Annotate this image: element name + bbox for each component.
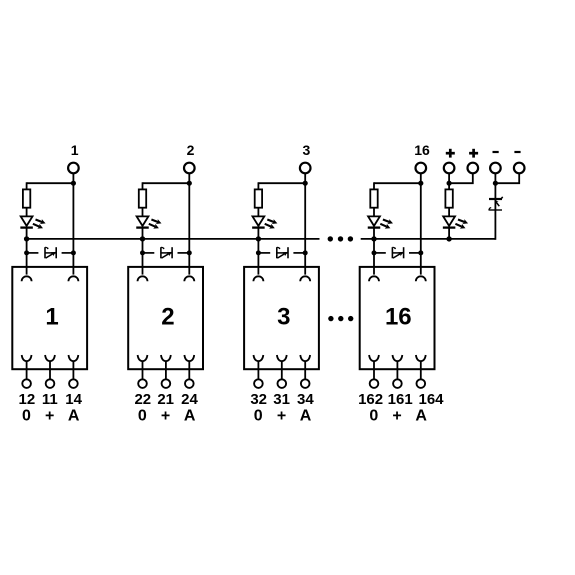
svg-text:A: A: [68, 408, 80, 425]
label + first: [446, 149, 455, 158]
resistor module 16: [370, 189, 377, 207]
terminal 2 circle: [184, 163, 195, 174]
wire module 3 left branch upper: [257, 182, 259, 189]
suppressor diode minus branch: [488, 197, 502, 211]
terminal - second circle: [514, 163, 525, 174]
resistor module 3: [255, 189, 262, 207]
wire module 2 bottom pin mid: [165, 361, 167, 380]
node + link junction: [447, 181, 452, 186]
wire link module 1: [27, 182, 74, 184]
resistor module 2: [139, 189, 146, 207]
LED module 1 arrows: [33, 219, 46, 229]
svg-text:0: 0: [254, 408, 263, 425]
node module 16 row2 left: [372, 250, 377, 255]
label - first: [493, 151, 499, 153]
node + bus junction: [446, 236, 451, 241]
svg-text:11: 11: [42, 391, 58, 408]
node module 16 bus junction: [371, 236, 376, 241]
svg-text:3: 3: [303, 142, 311, 158]
wire module 3 bottom pin right: [304, 361, 306, 380]
wire module 2 LED to box: [142, 228, 144, 275]
wire module 16 resistor to LED: [373, 208, 375, 217]
node module 1 row2 left: [24, 250, 29, 255]
terminal circle bottom right module 3: [301, 379, 310, 388]
wire module 3 bottom pin mid: [281, 361, 283, 380]
wire module 16 left branch upper: [373, 182, 375, 189]
terminal circle bottom right module 16: [417, 379, 426, 388]
svg-text:31: 31: [273, 391, 290, 408]
wire module 16 row2 left lead: [374, 252, 386, 254]
module 16 bottom contact mid: [393, 355, 403, 361]
wire module 16 bottom pin left: [373, 361, 375, 380]
node module 3 bus junction: [256, 236, 261, 241]
terminal + first circle: [444, 163, 455, 174]
wire link module 16: [374, 182, 421, 184]
wire - second link: [495, 173, 519, 183]
terminal - first circle: [490, 163, 501, 174]
node - link junction: [493, 181, 498, 186]
svg-text:21: 21: [157, 391, 174, 408]
module 16 top contact left: [369, 276, 379, 281]
wire module 1 bottom pin right: [72, 361, 74, 380]
relay module 2 box: [128, 267, 203, 369]
wire link module 3: [258, 182, 305, 184]
wire module 16 LED to box: [373, 228, 375, 275]
svg-text:+: +: [45, 408, 54, 425]
terminal circle bottom left module 2: [138, 379, 147, 388]
wire link module 2: [143, 182, 190, 184]
node module 16 row2 right: [418, 250, 423, 255]
svg-text:1: 1: [71, 142, 79, 158]
module ellipsis dot 3: [348, 316, 353, 321]
wire module 1 left branch upper: [26, 182, 28, 189]
wire module 1 row2 right lead: [62, 252, 74, 254]
LED indicator arrows: [455, 219, 468, 229]
wire terminal 16 vertical: [420, 173, 422, 274]
terminal + second circle: [468, 163, 479, 174]
terminal 16 circle: [416, 163, 427, 174]
terminal circle bottom mid module 16: [393, 379, 402, 388]
module 2 bottom contact mid: [161, 355, 171, 361]
wire terminal 3 vertical: [304, 173, 306, 274]
bus ellipsis dot 1: [328, 236, 333, 241]
LED module 1: [20, 216, 32, 227]
LED module 16: [368, 216, 381, 227]
protection element module 1: [45, 247, 56, 258]
wire module 3 row2 right lead: [293, 252, 305, 254]
wire module 1 bottom pin mid: [49, 361, 51, 380]
wire module 2 bottom pin left: [142, 361, 144, 380]
module 1 bottom contact right: [69, 355, 79, 361]
wire module 2 resistor to LED: [142, 208, 144, 217]
svg-text:16: 16: [414, 142, 430, 158]
protection element module 3: [277, 247, 288, 258]
terminal 3 circle: [300, 163, 311, 174]
wire + first vertical: [448, 173, 450, 189]
terminal circle bottom mid module 1: [46, 379, 55, 388]
LED module 3: [252, 216, 265, 227]
module 3 bottom contact right: [300, 355, 310, 361]
wire module 2 left branch upper: [142, 182, 144, 189]
label - second: [514, 151, 520, 153]
LED module 2 arrows: [149, 219, 162, 229]
svg-text:164: 164: [418, 391, 444, 408]
svg-text:0: 0: [138, 408, 147, 425]
terminal circle bottom left module 16: [370, 379, 379, 388]
node module 3 row2 right: [303, 250, 308, 255]
module ellipsis dot 2: [338, 316, 343, 321]
wire module 3 bottom pin left: [257, 361, 259, 380]
svg-text:A: A: [300, 408, 312, 425]
svg-text:34: 34: [297, 391, 314, 408]
svg-text:0: 0: [22, 408, 31, 425]
svg-text:2: 2: [161, 304, 174, 331]
wire terminal 1 vertical: [72, 173, 74, 274]
svg-text:14: 14: [65, 391, 82, 408]
wire module 16 row2 right lead: [409, 252, 421, 254]
svg-text:162: 162: [358, 391, 383, 408]
svg-text:12: 12: [19, 391, 36, 408]
module 16 bottom contact right: [416, 355, 426, 361]
module 2 top contact right: [184, 276, 194, 281]
LED indicator branch: [443, 216, 456, 227]
svg-text:2: 2: [187, 142, 195, 158]
node module 2 row2 left: [140, 250, 145, 255]
bus ellipsis dot 3: [348, 236, 353, 241]
wire module 3 resistor to LED: [257, 208, 259, 217]
relay module 16 box: [360, 267, 435, 369]
terminal circle bottom left module 3: [254, 379, 263, 388]
LED module 2: [136, 216, 149, 227]
terminal circle bottom right module 2: [185, 379, 194, 388]
node module 1 row2 right: [71, 250, 76, 255]
wire module 2 bottom pin right: [188, 361, 190, 380]
module 1 top contact left: [22, 276, 32, 281]
resistor indicator branch: [445, 189, 452, 207]
node module 3 row2 left: [256, 250, 261, 255]
module 1 bottom contact mid: [45, 355, 55, 361]
svg-text:0: 0: [369, 408, 378, 425]
protection element module 16: [392, 247, 403, 258]
module 1 top contact right: [68, 276, 78, 281]
wire module 3 LED to box: [257, 228, 259, 275]
module 16 bottom contact left: [369, 355, 379, 361]
resistor module 1: [23, 189, 30, 207]
wire module 3 row2 left lead: [258, 252, 270, 254]
node module 2 bus junction: [140, 236, 145, 241]
wire + resistor to LED: [448, 208, 450, 217]
module 3 bottom contact mid: [277, 355, 287, 361]
node module 3 link junction: [303, 181, 308, 186]
module 2 bottom contact right: [184, 355, 194, 361]
module 2 bottom contact left: [138, 355, 148, 361]
terminal 1 circle: [68, 163, 79, 174]
LED module 16 arrows: [380, 219, 393, 229]
wire bus right segment: [361, 238, 496, 240]
module 2 top contact left: [138, 276, 148, 281]
svg-text:22: 22: [134, 391, 151, 408]
wire module 16 bottom pin right: [420, 361, 422, 380]
terminal circle bottom mid module 2: [162, 379, 171, 388]
node module 1 bus junction: [24, 236, 29, 241]
svg-text:24: 24: [181, 391, 198, 408]
svg-text:A: A: [184, 408, 196, 425]
svg-text:3: 3: [277, 304, 290, 331]
wire + second link: [449, 173, 473, 183]
svg-text:A: A: [415, 408, 427, 425]
wire terminal 2 vertical: [188, 173, 190, 274]
node module 2 link junction: [187, 181, 192, 186]
svg-text:+: +: [277, 408, 286, 425]
module ellipsis dot 1: [328, 316, 333, 321]
svg-text:16: 16: [385, 304, 412, 331]
node module 2 row2 right: [187, 250, 192, 255]
wire module 1 bottom pin left: [26, 361, 28, 380]
module 1 bottom contact left: [22, 355, 32, 361]
LED module 3 arrows: [265, 219, 278, 229]
svg-text:161: 161: [388, 391, 413, 408]
wire module 1 resistor to LED: [26, 208, 28, 217]
wire module 1 row2 left lead: [27, 252, 39, 254]
svg-text:1: 1: [45, 304, 58, 331]
protection element module 2: [161, 247, 172, 258]
module 3 top contact right: [300, 276, 310, 281]
svg-text:32: 32: [250, 391, 267, 408]
wire - first vertical: [494, 173, 496, 240]
module 3 top contact left: [253, 276, 263, 281]
terminal circle bottom left module 1: [22, 379, 31, 388]
bus ellipsis dot 2: [338, 236, 343, 241]
wire + LED to bus: [448, 228, 450, 239]
node module 16 link junction: [418, 181, 423, 186]
terminal circle bottom mid module 3: [278, 379, 287, 388]
wire module 2 row2 left lead: [143, 252, 155, 254]
terminal circle bottom right module 1: [69, 379, 78, 388]
relay module 3 box: [244, 267, 319, 369]
label + second: [469, 149, 478, 158]
wire module 2 row2 right lead: [178, 252, 190, 254]
node module 1 link junction: [71, 181, 76, 186]
module 16 top contact right: [416, 276, 426, 281]
wire module 16 bottom pin mid: [396, 361, 398, 380]
relay module 1 box: [12, 267, 87, 369]
wire module 1 LED to box: [26, 228, 28, 275]
wire bus left segment: [27, 238, 320, 240]
svg-text:+: +: [161, 408, 170, 425]
module 3 bottom contact left: [254, 355, 264, 361]
svg-text:+: +: [392, 408, 401, 425]
